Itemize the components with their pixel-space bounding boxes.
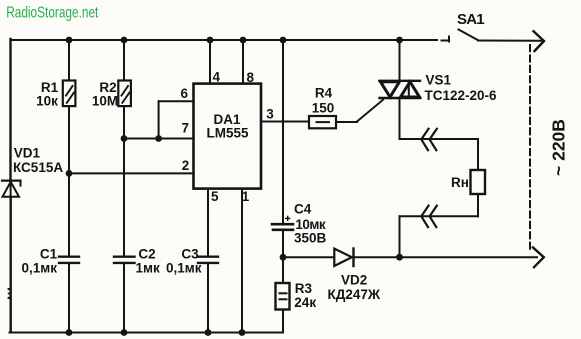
svg-text:10М: 10М [92, 93, 118, 108]
svg-text:1мк: 1мк [136, 261, 160, 276]
svg-text:С2: С2 [138, 247, 155, 262]
svg-text:С3: С3 [181, 247, 199, 262]
svg-text:24к: 24к [294, 295, 316, 310]
svg-text:2: 2 [182, 158, 190, 173]
svg-text:0,1мк: 0,1мк [22, 261, 58, 276]
svg-text:350В: 350В [294, 231, 327, 246]
svg-text:R3: R3 [295, 281, 313, 296]
svg-text:7: 7 [182, 121, 190, 136]
svg-text:1: 1 [242, 189, 250, 204]
svg-text:ТС122-20-6: ТС122-20-6 [425, 88, 498, 103]
svg-text:150: 150 [312, 100, 335, 115]
svg-text:Rн: Rн [451, 175, 469, 190]
svg-text:0,1мк: 0,1мк [166, 261, 202, 276]
svg-text:8: 8 [247, 70, 255, 85]
svg-text:LM555: LM555 [206, 126, 249, 141]
svg-text:3: 3 [266, 107, 274, 122]
svg-text:10мк: 10мк [295, 217, 326, 232]
svg-text:R4: R4 [315, 86, 333, 101]
svg-text:VS1: VS1 [426, 73, 452, 88]
svg-text:6: 6 [181, 86, 189, 101]
svg-text:RadioStorage.net: RadioStorage.net [6, 3, 98, 21]
svg-text:С4: С4 [294, 202, 312, 217]
svg-text:С1: С1 [40, 247, 58, 262]
svg-text:10к: 10к [36, 93, 58, 108]
svg-text:4: 4 [213, 69, 221, 84]
svg-text:SA1: SA1 [457, 11, 484, 28]
svg-text:~ 220В: ~ 220В [549, 119, 569, 176]
svg-text:КД247Ж: КД247Ж [328, 287, 381, 302]
svg-text:КС515А: КС515А [13, 160, 63, 175]
svg-text:VD2: VD2 [341, 272, 367, 287]
svg-text:5: 5 [211, 189, 219, 204]
svg-text:VD1: VD1 [14, 146, 41, 161]
